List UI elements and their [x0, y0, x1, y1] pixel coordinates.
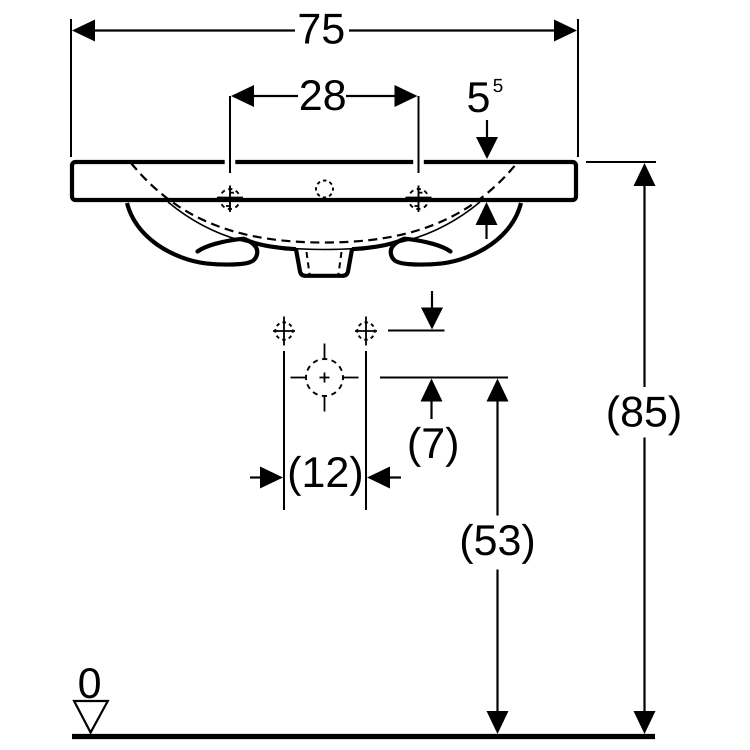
- dimension (53): down arrow at floor: [487, 711, 509, 734]
- bowl bottom edge right to trap: [352, 241, 399, 249]
- dimension (7): up arrow: [421, 379, 443, 402]
- dimension 28: right arrowhead: [395, 85, 418, 107]
- dimension (53): line below label: [496, 570, 498, 714]
- dimension 5.5: lower arrow (up): [476, 202, 498, 225]
- datum triangle: [74, 701, 108, 733]
- dimension (85): down arrow at floor: [634, 711, 656, 734]
- text (12) label: [290, 456, 361, 496]
- dimension 28: extension line left: [229, 96, 231, 173]
- dimension 75: extension line right: [577, 19, 579, 157]
- dimension (12): left hole line: [283, 351, 285, 510]
- bowl outer silhouette right: [442, 203, 521, 263]
- basin overflow edge (thin arc): [168, 202, 480, 250]
- text (53) label: [462, 524, 533, 564]
- level line at mounting holes: [388, 330, 445, 332]
- line break halos on rim top edge: [225, 159, 236, 165]
- mounting hole right crosshair: [357, 322, 374, 339]
- dimension 75: right arrowhead: [554, 20, 577, 42]
- bowl bottom edge left to trap: [250, 241, 297, 249]
- drain trap box: [296, 249, 352, 276]
- down arrow to mounting hole level: [431, 291, 433, 309]
- faucet hole left (dashed circle + cross): [220, 189, 240, 209]
- text 28 label: [301, 80, 345, 110]
- right bracket fin: top edge: [405, 239, 451, 252]
- drain hidden edges (dashed): [307, 252, 310, 274]
- dimension (85): top level line: [586, 161, 656, 163]
- text 5 label: [468, 82, 488, 112]
- left bracket fin: top edge: [198, 239, 244, 252]
- text 0 label: [79, 668, 100, 698]
- dimension (12): right arrow: [367, 467, 390, 489]
- text (7) label: [410, 427, 457, 467]
- bowl outer silhouette left: [127, 203, 206, 263]
- basin inner edge (hidden, dashed arc): [131, 163, 517, 243]
- right bracket fin: bottom and left side: [391, 239, 442, 265]
- extension line crossings redrawn: [229, 159, 231, 173]
- level line at siphon: [380, 377, 508, 379]
- dimension (12): right hole line: [365, 351, 367, 510]
- dimension 28: left arrowhead: [231, 85, 254, 107]
- text (85) label: [608, 395, 679, 435]
- dimension (85): up arrow at rim top level: [634, 163, 656, 186]
- washbasin rim slab: [72, 162, 576, 200]
- floor line: [72, 734, 655, 739]
- mounting hole left crosshair: [275, 322, 292, 339]
- overflow hole (dashed circle): [316, 181, 333, 198]
- text 75 label: [300, 14, 344, 44]
- dimension 28: extension line right: [418, 96, 420, 173]
- dimension 75: extension line left: [70, 19, 72, 157]
- dimension 75: left arrowhead: [72, 20, 95, 42]
- dimension (53): up arrow at siphon level: [487, 379, 509, 402]
- left bracket fin: bottom and right side: [206, 239, 257, 265]
- dimension (12): left arrow: [250, 476, 261, 478]
- faucet hole right (dashed circle + cross): [409, 189, 429, 209]
- dimension 75: dimension line: [93, 29, 295, 31]
- siphon hole large crosshair: [306, 359, 343, 396]
- text superscript 5: [493, 79, 502, 92]
- dimension (85): line below label: [643, 438, 645, 714]
- dimension 5.5: upper arrow (down): [486, 120, 488, 139]
- dimension 28: dimension line: [252, 95, 298, 97]
